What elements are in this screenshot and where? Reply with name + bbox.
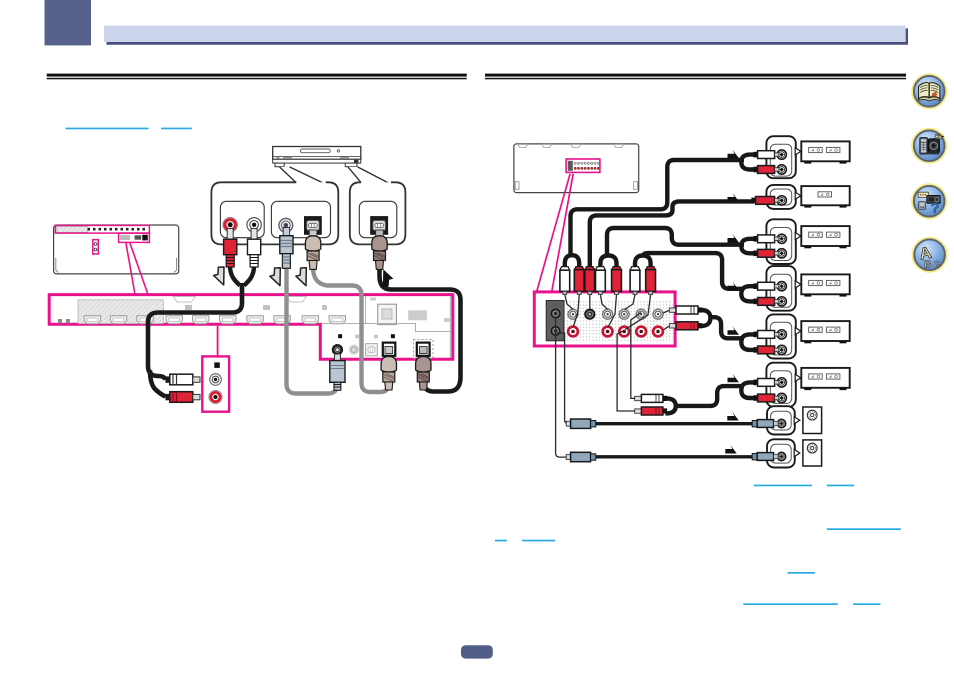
gray down arrow 1: [214, 267, 224, 285]
speaker cable 2 (center): [590, 201, 754, 271]
header dark square: [45, 0, 92, 45]
digital input jacks row on receiver: [332, 334, 433, 358]
speaker cable 1 (front L): [571, 160, 745, 256]
receiver rear panel strip: [49, 295, 453, 360]
TV connector row jacks: [88, 228, 146, 231]
optical jack box1: [304, 216, 322, 235]
row plugs: row1 white/red: [753, 151, 778, 174]
lower pair red plug: [635, 407, 667, 415]
subwoofer 2: [803, 440, 822, 466]
receiver right section details: [322, 296, 451, 358]
white RCA female jack: [247, 218, 261, 232]
optical cable from box1 (gray): [313, 267, 389, 392]
arch speaker row 3: [741, 239, 755, 254]
optical in 2 jack with dashed highlight: [414, 340, 434, 359]
speaker cable 6 (surround back pair): [666, 398, 676, 413]
connection arrows: [725, 150, 739, 454]
nav icon 4: ABC index: [912, 237, 948, 273]
row4 plugs: [753, 282, 778, 305]
speaker cable 5 (surround from panel edge pair): [701, 310, 711, 326]
nav icon 2: connections (devices): [911, 128, 947, 164]
TV pink highlight strip 2: [119, 233, 150, 242]
white RCA male plug (into DVD): [248, 229, 261, 268]
red female jack: [209, 390, 222, 403]
sw pre-out jack 1: [551, 309, 560, 318]
lower pair white plug: [635, 394, 667, 402]
link underline left 2: [161, 128, 192, 130]
subwoofer plug left 1: [566, 419, 596, 428]
optical male plug tan into receiver (up): [381, 347, 396, 391]
amplifier rear panel: [514, 144, 639, 193]
link underline right 2: [827, 485, 854, 487]
arch speaker row 5: [741, 334, 755, 350]
analog audio cable (black pair): [230, 266, 254, 286]
coax male plug into receiver (light blue, up): [330, 354, 345, 390]
callout funnel to box1: [280, 167, 326, 184]
link underline right 6: [788, 572, 815, 574]
plug center red: [585, 267, 595, 295]
pink CD-in zoom box: [202, 326, 229, 412]
row terminals: [777, 150, 786, 461]
optical male plug tan (into DVD): [305, 230, 320, 269]
white female jack: [210, 374, 222, 386]
speaker 3: [801, 226, 849, 248]
inner rects of row boxes: [770, 144, 791, 463]
coax digital female jack: [279, 218, 293, 232]
speaker 5: [801, 321, 849, 343]
speaker terminals top row: [568, 309, 663, 319]
inner rect analog: [220, 201, 264, 237]
TV lower jack group: [120, 235, 148, 241]
subwoofer cable 1: [596, 422, 753, 425]
row2 red plug: [751, 197, 778, 205]
hdmi connector row: [84, 316, 100, 324]
optical cable from box2 (black): [380, 266, 461, 392]
subwoofer plug left 2: [566, 452, 596, 461]
TV pink callout lines to receiver: [126, 243, 148, 295]
arch speaker row 4: [741, 286, 755, 301]
black up arrow: [383, 269, 393, 287]
svg-text:?: ?: [931, 199, 940, 215]
plug pair1 white: [560, 267, 570, 295]
speaker 1: [801, 141, 849, 163]
plug pair2 red: [612, 267, 622, 295]
red RCA male plug (into receiver CD): [166, 392, 201, 403]
speaker 4: [801, 274, 849, 296]
top trapezoid cutouts: [173, 297, 195, 303]
speaker row boxes: [766, 136, 795, 467]
link underline right 4: [495, 540, 507, 542]
row5 plugs: [753, 331, 778, 354]
tiny label marks above hdmi row: [185, 305, 192, 310]
amp pink highlight box: [566, 159, 600, 172]
callout box1 (DVD audio outputs): [211, 182, 338, 244]
subwoofer cable 2: [596, 455, 753, 458]
amp pink callout lines to terminal panel: [537, 174, 574, 292]
white RCA male plug (into receiver CD): [166, 374, 201, 385]
right section double rule: [485, 74, 906, 77]
hatched block: [78, 300, 163, 324]
speaker 6: [801, 368, 849, 390]
link underline right 7: [743, 603, 837, 605]
thin wires panel: [556, 295, 670, 458]
amp speaker terminal block: [566, 159, 600, 172]
speaker terminals red row: [568, 327, 663, 337]
speaker cable 3 (front R via arch2): [607, 228, 744, 256]
nav icon 1: open book (contents): [911, 73, 947, 109]
TV pink highlight strip 1: [55, 225, 149, 233]
arch speaker row 6: [741, 382, 755, 398]
link underline right 1: [754, 485, 812, 487]
speaker 2 (center): [801, 186, 849, 208]
arch receiver pair 2: [600, 256, 616, 272]
callout box2 (DVD optical output): [350, 182, 406, 244]
sw pre-out jack 2: [551, 327, 560, 336]
optical in 1 jack: [383, 343, 396, 356]
gray down arrow 2: [270, 268, 280, 286]
nav icon 3: troubleshooting: [911, 183, 947, 219]
row3 plugs: [753, 235, 778, 257]
DVD feet: [275, 163, 284, 167]
optical ghost jack: [366, 344, 378, 356]
subwoofer pre-out block: [546, 301, 564, 341]
TV connector strip hatched block: [57, 226, 88, 232]
page number badge: [461, 645, 493, 658]
gray down arrow 3: [296, 268, 306, 286]
plug pair3 white: [630, 267, 640, 295]
callout funnel to box2: [348, 167, 391, 184]
brace tails: [794, 148, 801, 457]
arch receiver pair 3: [635, 256, 651, 272]
link underline right 8: [853, 603, 880, 605]
optical male plug dark (into DVD box2): [372, 230, 387, 269]
subwoofer 1: [803, 407, 822, 434]
speaker terminal panel (pink): [534, 292, 675, 346]
optical jack box2: [370, 216, 388, 235]
row7 subwoofer plug right: [752, 420, 778, 428]
panel edge pair white plug: [669, 306, 702, 314]
label squares: [338, 334, 342, 338]
TV small pink jack box: [93, 240, 99, 254]
arch receiver pair 1: [565, 255, 579, 271]
row6 plugs: [753, 379, 778, 402]
header light bar: [104, 26, 906, 42]
header bar shadow: [107, 28, 909, 44]
coax in jack: [332, 344, 343, 355]
speaker cable 4: [643, 253, 744, 289]
coax digital cable (gray): [287, 269, 338, 394]
TV rear panel outline: [54, 225, 179, 274]
left section double rule: [47, 74, 467, 77]
inner rect optical box2: [359, 201, 397, 237]
arch speaker row 1: [741, 155, 755, 170]
DVD player: [273, 147, 361, 167]
plug pair2 white: [596, 267, 606, 295]
link underline right 5: [522, 540, 555, 542]
panel edge pair red plug: [669, 322, 702, 330]
link underline right 3: [827, 528, 901, 530]
red RCA female jack: [223, 218, 237, 232]
red RCA male plug (into DVD): [224, 229, 237, 268]
coax ghost jack: [349, 345, 359, 355]
plug pair1 red: [574, 267, 584, 295]
plug pair3 red: [646, 267, 656, 295]
coax male plug (into DVD): [280, 228, 293, 269]
inner rect digital coax/opt: [271, 201, 330, 237]
row8 subwoofer plug right: [752, 453, 778, 461]
tiny squares left corner: [58, 319, 62, 323]
optical male plug dark into receiver (up): [416, 347, 431, 391]
link underline left 1: [65, 128, 148, 130]
